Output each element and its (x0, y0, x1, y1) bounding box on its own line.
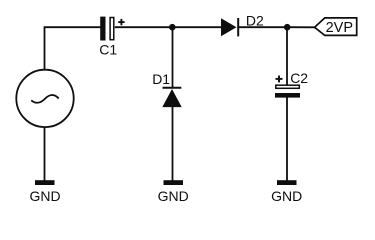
diode D2 (221, 18, 238, 36)
wire: node B down to C2 (286, 27, 288, 85)
capacitor C2 (275, 85, 300, 97)
svg-text:GND: GND (29, 188, 60, 204)
wire top-left: source top to C1 (45, 27, 101, 70)
ground GND3 (271, 180, 302, 204)
svg-text:D2: D2 (246, 13, 264, 29)
node A junction dot (169, 24, 176, 31)
diode D1 (162, 88, 181, 107)
svg-text:C2: C2 (290, 70, 308, 86)
svg-text:GND: GND (158, 188, 189, 204)
svg-text:D1: D1 (152, 71, 170, 87)
wire: node A down to D1 cathode (172, 27, 174, 88)
C1 plus polarity mark (118, 19, 124, 25)
svg-text:C1: C1 (99, 42, 117, 58)
wire: node B to output tag (287, 26, 315, 28)
wire: D1 anode to GND2 (172, 107, 174, 181)
ground GND1 (29, 180, 60, 204)
svg-text:GND: GND (271, 188, 302, 204)
node B junction dot (284, 24, 291, 31)
ground GND2 (158, 180, 189, 204)
wire: source bottom to GND1 (44, 127, 46, 180)
wire: C2 to GND3 (286, 98, 288, 181)
wire: C1 to node A (115, 26, 173, 28)
svg-text:2VP: 2VP (326, 20, 353, 36)
output net tag 2VP (315, 18, 357, 36)
wire: node A to D2 anode (173, 26, 222, 28)
capacitor C1 (100, 17, 114, 41)
AC source (16, 70, 73, 127)
wire: D2 cathode to node B (238, 26, 287, 28)
C2 plus polarity mark (276, 76, 283, 83)
